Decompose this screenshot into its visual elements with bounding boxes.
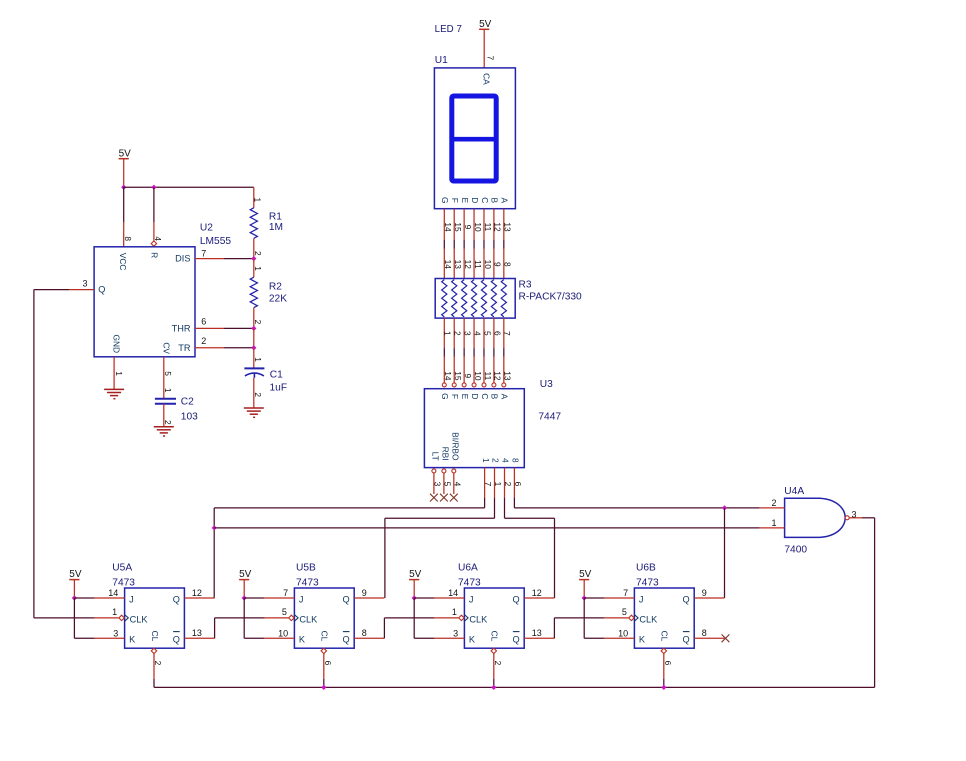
wire R2 pin 2 bbox=[253, 308, 255, 329]
svg-text:7: 7 bbox=[502, 331, 512, 336]
svg-text:14: 14 bbox=[443, 260, 453, 270]
svg-text:4: 4 bbox=[153, 236, 163, 241]
wire Qbar stub (U6A) bbox=[524, 637, 554, 639]
svg-text:7: 7 bbox=[201, 249, 206, 259]
svg-text:U4A: U4A bbox=[784, 486, 804, 497]
junction 5V/J (U6B) bbox=[582, 596, 586, 600]
svg-text:A: A bbox=[500, 394, 510, 400]
svg-text:CL: CL bbox=[490, 631, 500, 642]
svg-text:5V: 5V bbox=[479, 19, 492, 30]
svg-text:7473: 7473 bbox=[296, 578, 319, 589]
bubble 7447 output pin 13 bbox=[502, 383, 506, 387]
junction R2/THR bbox=[252, 326, 256, 330]
svg-text:CV: CV bbox=[161, 342, 171, 354]
wire 5V down (U6B) bbox=[583, 580, 585, 598]
wire 7447 pin 1 stub bbox=[494, 468, 496, 498]
svg-text:U3: U3 bbox=[540, 379, 553, 390]
wire reset pin 4 bbox=[153, 187, 155, 222]
svg-text:D: D bbox=[470, 197, 480, 203]
resistor element 7 of R3 bbox=[501, 280, 506, 317]
svg-text:E: E bbox=[460, 394, 470, 400]
bubble CL (U5B) bbox=[321, 648, 326, 653]
wire R3 pin 4 to 7447 pin 10 bbox=[473, 318, 475, 348]
svg-text:2: 2 bbox=[253, 320, 263, 325]
svg-text:5: 5 bbox=[282, 607, 287, 617]
wire NAND pin 2 stub bbox=[760, 507, 785, 509]
bubble 7447 pin 5 bbox=[442, 469, 446, 473]
svg-text:9: 9 bbox=[493, 262, 503, 267]
wire 5V to K (U6B) bbox=[583, 598, 585, 638]
wire Qbar to next CLK (U5A) bbox=[214, 618, 216, 638]
wire CLK stub (U5A) bbox=[95, 617, 119, 619]
svg-text:E: E bbox=[460, 198, 470, 204]
svg-text:LM555: LM555 bbox=[200, 236, 231, 247]
svg-text:9: 9 bbox=[702, 588, 707, 598]
svg-text:5V: 5V bbox=[579, 569, 592, 580]
svg-text:13: 13 bbox=[532, 628, 542, 638]
svg-text:14: 14 bbox=[443, 371, 453, 381]
svg-text:F: F bbox=[450, 394, 460, 399]
bubble CLK (U5A) bbox=[119, 615, 124, 620]
wire J pin (U6B) bbox=[584, 597, 604, 599]
svg-text:13: 13 bbox=[503, 371, 513, 381]
wire TR pin 2 bbox=[195, 347, 224, 349]
svg-text:12: 12 bbox=[192, 588, 202, 598]
no-connect X (7447 pin 5) bbox=[440, 494, 448, 502]
bubble CLK (U5B) bbox=[289, 615, 294, 620]
wire Qbar stub (U5A) bbox=[184, 637, 214, 639]
resistor element 5 of R3 bbox=[481, 280, 486, 317]
wire 7447 pin 3 stub bbox=[433, 473, 435, 494]
svg-text:U6B: U6B bbox=[636, 563, 656, 574]
bubble CL (U5A) bbox=[151, 648, 156, 653]
wire DIS pin 7 bbox=[195, 258, 224, 260]
svg-text:6: 6 bbox=[492, 331, 502, 336]
wire Qbar to next CLK (U6A) bbox=[553, 618, 555, 638]
wire Q stub (U6A) bbox=[524, 597, 554, 599]
wire Q stub (U6B) bbox=[694, 597, 724, 599]
svg-text:1: 1 bbox=[481, 458, 491, 463]
svg-text:CLK: CLK bbox=[299, 614, 318, 624]
svg-text:6: 6 bbox=[201, 317, 206, 327]
flip-flop U6B box bbox=[634, 588, 694, 648]
wire 5V down (U6A) bbox=[413, 580, 415, 598]
svg-text:4: 4 bbox=[501, 458, 511, 463]
svg-text:2: 2 bbox=[771, 498, 776, 508]
svg-text:CLK: CLK bbox=[639, 614, 658, 624]
svg-text:12: 12 bbox=[493, 371, 503, 381]
wire 5V rail to R1 bbox=[124, 186, 254, 188]
bubble 7447 output pin 9 bbox=[462, 383, 466, 387]
wire CL to clear bus (U5A) bbox=[153, 654, 155, 680]
wire net D: 7447 pin6 to NAND pin 2 bbox=[513, 498, 515, 508]
svg-text:D: D bbox=[470, 393, 480, 399]
svg-text:1: 1 bbox=[443, 331, 453, 336]
svg-text:J: J bbox=[129, 595, 134, 605]
svg-text:J: J bbox=[469, 595, 474, 605]
svg-text:10: 10 bbox=[278, 628, 288, 638]
svg-text:K: K bbox=[639, 635, 646, 645]
svg-text:15: 15 bbox=[453, 371, 463, 381]
bubble 555 reset pin bbox=[151, 241, 156, 246]
svg-text:U5B: U5B bbox=[296, 563, 316, 574]
bubble 7447 output pin 15 bbox=[452, 383, 456, 387]
wire R3 pin 7 to 7447 pin 13 bbox=[503, 318, 505, 348]
wire NAND output pin 3 bbox=[849, 517, 862, 519]
svg-text:14: 14 bbox=[443, 222, 453, 232]
svg-text:3: 3 bbox=[82, 278, 87, 288]
bubble CL (U6B) bbox=[661, 648, 666, 653]
svg-text:10: 10 bbox=[618, 628, 628, 638]
svg-text:LT: LT bbox=[431, 452, 441, 461]
wire R3 pin 1 to 7447 pin 14 bbox=[443, 318, 445, 348]
wire net C: 7447 pin2 to U6A Q bbox=[504, 498, 506, 519]
svg-text:22K: 22K bbox=[269, 293, 287, 304]
svg-text:5: 5 bbox=[163, 371, 173, 376]
junction net D / U6B Q bbox=[722, 506, 726, 510]
junction reset pin tap bbox=[152, 185, 156, 189]
wire GND pin 1 bbox=[113, 357, 115, 390]
wire 5V to K (U5A) bbox=[73, 598, 75, 638]
svg-text:2: 2 bbox=[493, 661, 503, 666]
wire R1 pin 2 bbox=[253, 238, 255, 258]
wire THR to TR node bbox=[253, 328, 255, 347]
wire R3 pin 2 to 7447 pin 15 bbox=[453, 318, 455, 348]
wire CL to clear bus (U6A) bbox=[493, 654, 495, 680]
svg-text:R-PACK7/330: R-PACK7/330 bbox=[519, 291, 583, 302]
U6B clock edge chevron bbox=[634, 615, 638, 622]
junction clear bus (U5B) bbox=[322, 685, 326, 689]
svg-text:Q: Q bbox=[513, 635, 520, 645]
svg-text:10: 10 bbox=[473, 222, 483, 232]
wire J pin (U5A) bbox=[74, 597, 94, 599]
svg-text:Q: Q bbox=[173, 635, 180, 645]
svg-text:7: 7 bbox=[483, 482, 493, 487]
svg-text:103: 103 bbox=[181, 412, 198, 423]
svg-text:12: 12 bbox=[493, 222, 503, 232]
svg-text:2: 2 bbox=[253, 251, 263, 256]
svg-text:CL: CL bbox=[150, 631, 160, 642]
svg-text:K: K bbox=[299, 635, 306, 645]
svg-text:7: 7 bbox=[283, 588, 288, 598]
svg-text:K: K bbox=[129, 635, 136, 645]
svg-text:LED 7: LED 7 bbox=[435, 24, 462, 35]
wire display pin 9 to R3 pin 12 bbox=[463, 209, 465, 240]
wire Qbar stub (U5B) bbox=[354, 637, 384, 639]
svg-text:4: 4 bbox=[453, 482, 463, 487]
wire 5V to display pin 7 bbox=[483, 29, 485, 68]
svg-text:A: A bbox=[500, 198, 510, 204]
svg-text:7473: 7473 bbox=[636, 578, 659, 589]
wire THR pin 6 bbox=[195, 327, 224, 329]
svg-text:2: 2 bbox=[153, 661, 163, 666]
ground (C1) bbox=[244, 408, 264, 417]
wire 5V to K (U5B) bbox=[243, 598, 245, 638]
svg-text:CL: CL bbox=[660, 631, 670, 642]
svg-text:1: 1 bbox=[112, 607, 117, 617]
junction clear bus (U6B) bbox=[662, 685, 666, 689]
flip-flop U6A box bbox=[464, 588, 524, 648]
svg-text:Q: Q bbox=[343, 635, 350, 645]
wire 5V rail corner to R1 bbox=[253, 187, 255, 208]
svg-text:11: 11 bbox=[483, 223, 493, 232]
svg-text:3: 3 bbox=[463, 331, 473, 336]
wire R3 pin 3 to 7447 pin 9 bbox=[463, 318, 465, 348]
svg-text:2: 2 bbox=[201, 336, 206, 346]
wire 5V to K (U6A) bbox=[413, 598, 415, 638]
svg-text:5V: 5V bbox=[69, 569, 82, 580]
wire 7447 pin 6 stub bbox=[513, 468, 515, 498]
svg-text:8: 8 bbox=[702, 628, 707, 638]
wire CLK stub (U6B) bbox=[604, 617, 628, 619]
svg-text:G: G bbox=[440, 197, 450, 204]
bubble CLK (U6B) bbox=[629, 615, 634, 620]
timer U2 555 box bbox=[94, 247, 195, 357]
svg-text:8: 8 bbox=[503, 262, 513, 267]
svg-text:2: 2 bbox=[491, 458, 501, 463]
wire 555 Q to U5A CLK bbox=[33, 290, 35, 618]
svg-text:5V: 5V bbox=[239, 569, 252, 580]
svg-text:1: 1 bbox=[452, 607, 457, 617]
resistor element 6 of R3 bbox=[491, 280, 496, 317]
svg-text:7: 7 bbox=[485, 56, 494, 61]
wire CL to clear bus (U5B) bbox=[323, 654, 325, 680]
bubble 7447 output pin 10 bbox=[472, 383, 476, 387]
svg-text:8: 8 bbox=[123, 236, 133, 241]
wire net A: 7447 pin7 to U5A Q bbox=[484, 498, 486, 508]
capacitor C2 bbox=[155, 398, 176, 400]
svg-text:B: B bbox=[490, 198, 500, 204]
flip-flop U5B box bbox=[294, 588, 354, 648]
svg-text:9: 9 bbox=[362, 588, 367, 598]
svg-text:7: 7 bbox=[623, 588, 628, 598]
svg-text:2: 2 bbox=[453, 331, 463, 336]
wire VCC pin 8 bbox=[123, 187, 125, 222]
svg-text:R2: R2 bbox=[269, 281, 282, 292]
svg-text:U6A: U6A bbox=[458, 563, 478, 574]
resistor pack R3 box bbox=[435, 279, 515, 319]
svg-text:C1: C1 bbox=[270, 369, 283, 380]
resistor element 1 of R3 bbox=[442, 280, 447, 317]
svg-text:C: C bbox=[480, 393, 490, 399]
svg-text:7473: 7473 bbox=[112, 578, 135, 589]
wire 7447 pin 5 stub bbox=[443, 473, 445, 494]
wire Q stub (U5B) bbox=[354, 597, 384, 599]
bubble 7447 pin 4 bbox=[452, 469, 456, 473]
wire display pin 11 to R3 pin 10 bbox=[483, 209, 485, 240]
wire C1 pin 1 bbox=[253, 348, 255, 369]
svg-text:B: B bbox=[490, 394, 500, 400]
bubble 7447 output pin 12 bbox=[492, 383, 496, 387]
wire 5V down (U5B) bbox=[243, 580, 245, 598]
svg-text:BI/RBO: BI/RBO bbox=[450, 432, 460, 461]
svg-text:DIS: DIS bbox=[175, 253, 190, 263]
bubble 7447 pin 3 bbox=[432, 469, 436, 473]
svg-text:5V: 5V bbox=[409, 569, 422, 580]
svg-text:R1: R1 bbox=[269, 211, 282, 222]
wire NAND output down to clear bus bbox=[874, 518, 876, 688]
wire J pin (U6A) bbox=[414, 597, 434, 599]
svg-text:TR: TR bbox=[178, 343, 191, 353]
display U1 box bbox=[434, 68, 515, 209]
nand gate U4A body bbox=[785, 498, 846, 537]
svg-text:R3: R3 bbox=[519, 279, 532, 290]
wire 5V down bbox=[123, 159, 125, 188]
wire display pin 10 to R3 pin 11 bbox=[473, 209, 475, 240]
wire CLK stub (U5B) bbox=[264, 617, 288, 619]
svg-text:2: 2 bbox=[163, 420, 173, 425]
svg-text:1: 1 bbox=[163, 388, 173, 393]
svg-text:1uF: 1uF bbox=[270, 382, 288, 393]
wire R2 pin 1 bbox=[253, 259, 255, 278]
wire C2 to ground bbox=[163, 404, 165, 427]
svg-text:K: K bbox=[469, 635, 476, 645]
wire C1 to ground bbox=[253, 378, 255, 408]
svg-text:1: 1 bbox=[493, 482, 503, 487]
svg-text:12: 12 bbox=[463, 260, 473, 270]
junction TR/C1 bbox=[252, 346, 256, 350]
svg-text:13: 13 bbox=[503, 222, 513, 232]
svg-text:R: R bbox=[150, 252, 160, 258]
svg-text:13: 13 bbox=[453, 260, 463, 270]
wire display pin 14 to R3 pin 14 bbox=[443, 209, 445, 240]
svg-text:10: 10 bbox=[473, 371, 483, 381]
svg-text:5: 5 bbox=[622, 607, 627, 617]
wire CV pin 5 to C2 bbox=[163, 357, 165, 399]
svg-text:U2: U2 bbox=[200, 222, 213, 233]
capacitor C1 (polarized) bbox=[244, 367, 264, 369]
wire Q stub (U5A) bbox=[184, 597, 214, 599]
svg-text:U5A: U5A bbox=[112, 563, 132, 574]
svg-text:Q: Q bbox=[683, 635, 690, 645]
svg-text:RBI: RBI bbox=[441, 447, 451, 461]
junction node A / NAND1 tap bbox=[212, 526, 216, 530]
svg-text:6: 6 bbox=[323, 661, 333, 666]
wire CLK stub (U6A) bbox=[434, 617, 458, 619]
bubble 7447 output pin 14 bbox=[442, 383, 446, 387]
svg-text:7447: 7447 bbox=[538, 412, 561, 423]
svg-text:C2: C2 bbox=[181, 396, 194, 407]
7-segment digit 8 bbox=[452, 96, 496, 181]
wire R3 pin 5 to 7447 pin 11 bbox=[483, 318, 485, 348]
svg-text:1M: 1M bbox=[269, 222, 283, 233]
wire NAND pin 1 stub bbox=[760, 527, 785, 529]
wire Q pin 3 out bbox=[69, 289, 94, 291]
svg-text:3: 3 bbox=[852, 509, 857, 519]
svg-text:5V: 5V bbox=[119, 148, 132, 159]
wire display pin 12 to R3 pin 9 bbox=[493, 209, 495, 240]
wire display pin 15 to R3 pin 13 bbox=[453, 209, 455, 240]
junction 5V/J (U6A) bbox=[412, 596, 416, 600]
junction 5V/J (U5B) bbox=[242, 596, 246, 600]
svg-text:7473: 7473 bbox=[458, 578, 481, 589]
svg-text:Q: Q bbox=[173, 595, 180, 605]
svg-text:3: 3 bbox=[113, 628, 118, 638]
resistor element 3 of R3 bbox=[462, 280, 467, 317]
svg-text:CA: CA bbox=[481, 73, 491, 85]
wire net to NAND pin 1 (H3) bbox=[214, 527, 760, 529]
svg-text:5: 5 bbox=[443, 482, 453, 487]
wire 7447 pin 4 stub bbox=[453, 473, 455, 494]
svg-text:J: J bbox=[299, 595, 304, 605]
svg-text:1: 1 bbox=[771, 518, 776, 528]
resistor R2 bbox=[250, 277, 257, 307]
wire R3 pin 6 to 7447 pin 12 bbox=[493, 318, 495, 348]
resistor R1 bbox=[250, 208, 257, 239]
wire net B: 7447 pin1 to U5B Q bbox=[494, 498, 496, 519]
svg-text:13: 13 bbox=[192, 628, 202, 638]
svg-text:CLK: CLK bbox=[130, 614, 149, 624]
svg-text:Q: Q bbox=[343, 595, 350, 605]
svg-text:Q: Q bbox=[513, 595, 520, 605]
wire CL to clear bus (U6B) bbox=[663, 654, 665, 680]
svg-text:1: 1 bbox=[253, 266, 263, 271]
svg-text:Q: Q bbox=[683, 595, 690, 605]
svg-text:2: 2 bbox=[253, 392, 263, 397]
no-connect X (7447 pin 3) bbox=[430, 494, 438, 502]
svg-text:8: 8 bbox=[362, 628, 367, 638]
svg-text:9: 9 bbox=[463, 374, 473, 379]
svg-text:6: 6 bbox=[513, 482, 523, 487]
svg-text:6: 6 bbox=[663, 661, 673, 666]
flip-flop U5A box bbox=[125, 588, 185, 648]
svg-text:1: 1 bbox=[114, 371, 124, 376]
junction 5V/J (U5A) bbox=[72, 596, 76, 600]
svg-text:G: G bbox=[440, 393, 450, 400]
junction clear bus (U6A) bbox=[492, 685, 496, 689]
ground (C2) bbox=[154, 427, 174, 436]
svg-text:J: J bbox=[639, 595, 644, 605]
svg-text:GND: GND bbox=[111, 334, 121, 353]
junction 5V/VCC/R1 bbox=[122, 185, 126, 189]
wire 7447 pin 2 stub bbox=[504, 468, 506, 498]
wire 7447 pin 7 stub bbox=[484, 468, 486, 498]
svg-text:3: 3 bbox=[433, 482, 443, 487]
svg-text:4: 4 bbox=[472, 331, 482, 336]
no-connect X (U6B Qbar) bbox=[722, 634, 730, 642]
U5B clock edge chevron bbox=[294, 615, 298, 622]
junction R1/R2/DIS bbox=[252, 256, 256, 260]
svg-text:CLK: CLK bbox=[469, 614, 488, 624]
wire clear bus bbox=[154, 686, 874, 688]
bubble 7447 output pin 11 bbox=[482, 383, 486, 387]
wire J pin (U5B) bbox=[244, 597, 264, 599]
bubble CL (U6A) bbox=[491, 648, 496, 653]
svg-text:9: 9 bbox=[463, 225, 473, 230]
svg-text:CL: CL bbox=[320, 631, 330, 642]
svg-text:8: 8 bbox=[511, 458, 521, 463]
svg-text:11: 11 bbox=[483, 372, 493, 381]
nand bubble bbox=[845, 516, 849, 520]
svg-text:VCC: VCC bbox=[118, 253, 128, 271]
bubble CLK (U6A) bbox=[459, 615, 464, 620]
svg-text:Q: Q bbox=[98, 285, 105, 295]
svg-text:11: 11 bbox=[473, 260, 483, 269]
svg-text:10: 10 bbox=[483, 260, 493, 270]
wire Qbar stub (U6B) bbox=[694, 637, 724, 639]
decoder U3 7447 box bbox=[424, 389, 524, 468]
resistor element 4 of R3 bbox=[471, 280, 476, 317]
svg-text:5: 5 bbox=[482, 331, 492, 336]
svg-text:14: 14 bbox=[448, 588, 458, 598]
resistor element 2 of R3 bbox=[452, 280, 457, 317]
svg-text:3: 3 bbox=[453, 628, 458, 638]
svg-text:12: 12 bbox=[532, 588, 542, 598]
svg-text:7400: 7400 bbox=[784, 545, 807, 556]
no-connect X (7447 pin 4) bbox=[450, 494, 458, 502]
svg-text:U1: U1 bbox=[435, 55, 448, 66]
svg-text:14: 14 bbox=[108, 588, 118, 598]
